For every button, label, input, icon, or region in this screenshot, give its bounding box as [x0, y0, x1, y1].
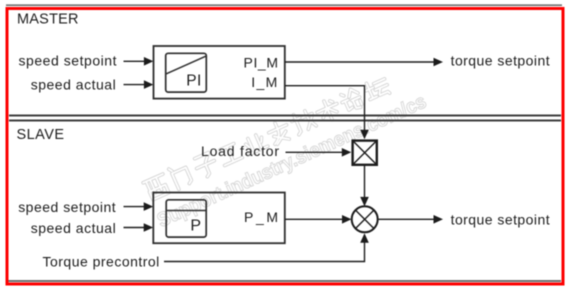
- svg-text:I_M: I_M: [251, 74, 277, 90]
- divider double line between MASTER and SLAVE: [9, 115, 561, 117]
- svg-text:PI_M: PI_M: [244, 55, 279, 71]
- frame top black line: [6, 4, 562, 6]
- svg-text:P: P: [190, 217, 201, 234]
- wire speed actual into P block: [124, 227, 145, 229]
- svg-text:speed setpoint: speed setpoint: [19, 53, 117, 69]
- svg-text:P_M: P_M: [244, 209, 278, 225]
- wire torque precontrol up into junction: [164, 242, 365, 262]
- svg-text:speed setpoint: speed setpoint: [18, 199, 116, 215]
- svg-text:SLAVE: SLAVE: [17, 127, 65, 143]
- wire speed setpoint into P block: [124, 206, 145, 208]
- frame bottom black line: [8, 280, 561, 282]
- P controller block: [153, 193, 284, 244]
- wire PI_M output to torque setpoint: [285, 61, 434, 63]
- wire P_M output into product junction: [285, 218, 343, 220]
- wire I_M output down to multiplier: [285, 86, 365, 131]
- P icon inner square: [166, 200, 206, 237]
- watermark chinese line: [142, 74, 391, 202]
- PI icon inner square: [166, 53, 207, 92]
- svg-text:torque setpoint: torque setpoint: [451, 53, 550, 69]
- wire speed setpoint into PI block: [124, 60, 145, 62]
- svg-text:Torque precontrol: Torque precontrol: [43, 253, 160, 269]
- PI controller block: [154, 46, 285, 99]
- P icon step line: [166, 210, 206, 212]
- PI icon ramp diagonal: [166, 56, 206, 74]
- svg-text:PI: PI: [186, 73, 201, 90]
- svg-text:speed actual: speed actual: [31, 77, 116, 93]
- wire junction output to torque setpoint: [379, 218, 435, 220]
- multiplier box with X: [353, 141, 377, 165]
- wire speed actual into PI block: [124, 84, 145, 86]
- svg-text:torque setpoint: torque setpoint: [451, 212, 550, 228]
- svg-text:MASTER: MASTER: [17, 12, 79, 28]
- svg-text:speed actual: speed actual: [31, 220, 116, 236]
- svg-text:Load factor: Load factor: [201, 143, 279, 159]
- wire load factor into multiplier box: [286, 151, 343, 153]
- product junction circle with X: [352, 206, 378, 232]
- wire multiplier box down to product junction: [364, 166, 366, 199]
